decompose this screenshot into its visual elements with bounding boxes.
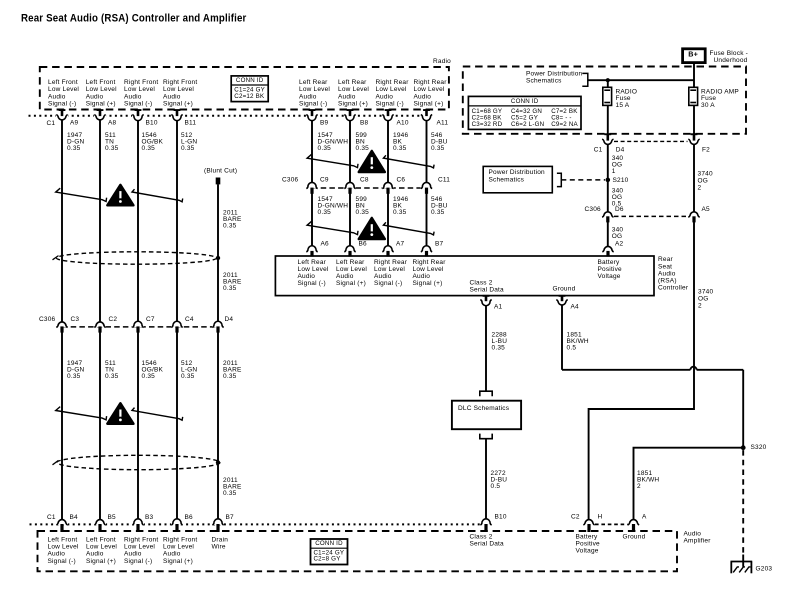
connector bracket (DLC top) bbox=[480, 391, 492, 396]
radio pin B10 bbox=[132, 114, 144, 121]
svg-text:Positive: Positive bbox=[598, 266, 623, 273]
svg-text:B+: B+ bbox=[688, 50, 698, 59]
conn id table (radio C1/C2) bbox=[231, 76, 268, 102]
svg-text:2: 2 bbox=[637, 483, 641, 490]
svg-text:0.35: 0.35 bbox=[223, 373, 237, 380]
box DLC Schematics bbox=[452, 401, 521, 430]
svg-text:0.35: 0.35 bbox=[318, 209, 332, 216]
wire S320 to G203 (dashed) bbox=[742, 450, 744, 556]
svg-text:B5: B5 bbox=[108, 514, 117, 521]
svg-text:Ground: Ground bbox=[553, 286, 576, 293]
svg-text:A4: A4 bbox=[571, 304, 580, 311]
svg-text:(RSA): (RSA) bbox=[658, 278, 677, 285]
svg-text:Wire: Wire bbox=[212, 544, 226, 551]
wire 546 D-BU 0.35 (C306 to RSA B7) bbox=[426, 193, 428, 246]
svg-text:C306: C306 bbox=[39, 316, 56, 323]
svg-text:Low Level: Low Level bbox=[86, 86, 117, 93]
fuse block connector dashed line (C1) bbox=[614, 140, 688, 142]
B+ terminal bbox=[683, 49, 706, 63]
blunt cut terminal bbox=[216, 178, 221, 185]
svg-text:Right Front: Right Front bbox=[163, 536, 197, 543]
svg-text:Left Front: Left Front bbox=[48, 79, 78, 86]
inline connector pin D6 (C306) bbox=[602, 212, 614, 218]
svg-text:Low Level: Low Level bbox=[86, 544, 117, 551]
svg-text:0.35: 0.35 bbox=[356, 209, 370, 216]
svg-text:Low Level: Low Level bbox=[413, 266, 444, 273]
RSA pin B6 bbox=[344, 246, 356, 252]
svg-text:B8: B8 bbox=[360, 120, 369, 127]
svg-text:Schematics: Schematics bbox=[526, 78, 562, 85]
svg-text:A2: A2 bbox=[615, 241, 624, 248]
svg-text:A8: A8 bbox=[108, 120, 117, 127]
radio pin A11 bbox=[421, 114, 433, 121]
inline connector pin C7 (C306 front) bbox=[132, 322, 144, 328]
wire 546 D-BU 0.35 (A11 to C306) bbox=[426, 120, 428, 183]
svg-text:DLC Schematics: DLC Schematics bbox=[458, 405, 510, 412]
svg-text:Battery: Battery bbox=[576, 534, 599, 541]
svg-text:S320: S320 bbox=[751, 444, 767, 451]
svg-text:0.35: 0.35 bbox=[393, 145, 407, 152]
RSA pin A2 bbox=[602, 246, 614, 252]
svg-text:Left Rear: Left Rear bbox=[299, 79, 328, 86]
svg-text:C2: C2 bbox=[571, 514, 580, 521]
svg-text:OG: OG bbox=[698, 178, 709, 185]
svg-text:0.35: 0.35 bbox=[356, 145, 370, 152]
svg-text:0.5: 0.5 bbox=[567, 345, 577, 352]
svg-text:CONN ID: CONN ID bbox=[236, 77, 264, 84]
inline connector pin C11 (C306 rear) bbox=[421, 183, 433, 189]
svg-text:Right Rear: Right Rear bbox=[376, 79, 410, 86]
svg-text:0.35: 0.35 bbox=[223, 285, 237, 292]
svg-text:Low Level: Low Level bbox=[124, 544, 155, 551]
svg-text:C3: C3 bbox=[71, 316, 80, 323]
svg-text:Audio: Audio bbox=[338, 93, 356, 100]
svg-text:Audio: Audio bbox=[298, 273, 316, 280]
RSA pin B7 bbox=[421, 246, 433, 252]
wire 2011 BARE 0.35 (blunt cut to C306) bbox=[217, 184, 219, 322]
svg-text:Audio: Audio bbox=[124, 93, 142, 100]
svg-text:0.35: 0.35 bbox=[318, 145, 332, 152]
amplifier pin B5 bbox=[94, 519, 106, 525]
conn id table (amplifier C1/C2) bbox=[311, 539, 348, 565]
shield ellipse (front, upper) bbox=[57, 252, 217, 264]
svg-text:2: 2 bbox=[698, 302, 702, 309]
svg-text:OG: OG bbox=[698, 295, 709, 302]
connector bracket (DLC bottom) bbox=[480, 434, 492, 439]
svg-text:Right Rear: Right Rear bbox=[413, 259, 447, 266]
box Rear Seat Audio (RSA) Controller bbox=[275, 256, 654, 296]
svg-text:Left Rear: Left Rear bbox=[298, 259, 327, 266]
svg-text:Audio: Audio bbox=[48, 93, 66, 100]
wire 511 TN 0.35 (C306 to amplifier) bbox=[99, 332, 101, 520]
bracket (power distribution, fuse block) bbox=[582, 73, 588, 86]
wire 3740 OG 2 (F2 to A5) bbox=[693, 145, 695, 212]
wire 1946 BK 0.35 (C306 to RSA A7) bbox=[387, 193, 389, 246]
svg-text:(Blunt Cut): (Blunt Cut) bbox=[204, 167, 237, 174]
inline connector pin C8 (C306 rear) bbox=[344, 183, 356, 189]
RSA pin A6 bbox=[306, 246, 318, 252]
svg-text:Audio: Audio bbox=[658, 270, 676, 277]
svg-text:Audio: Audio bbox=[413, 273, 431, 280]
wire 511 TN 0.35 (A8 to C306) bbox=[99, 120, 101, 322]
svg-text:B11: B11 bbox=[185, 120, 197, 127]
inline connector pin D4 (C306 front) bbox=[212, 322, 224, 328]
amplifier pin B7 bbox=[212, 519, 224, 525]
svg-text:Power Distribution: Power Distribution bbox=[489, 169, 546, 176]
svg-text:0.35: 0.35 bbox=[142, 373, 156, 380]
svg-text:Signal (-): Signal (-) bbox=[376, 101, 404, 108]
svg-text:A: A bbox=[642, 514, 647, 521]
svg-text:Underhood: Underhood bbox=[714, 57, 748, 64]
svg-text:B3: B3 bbox=[145, 514, 154, 521]
svg-text:Schematics: Schematics bbox=[489, 176, 525, 183]
svg-text:Serial Data: Serial Data bbox=[470, 541, 505, 548]
svg-text:D4: D4 bbox=[225, 316, 234, 323]
wire 3740 OG 2 (A5 to amplifier C2) bbox=[589, 222, 694, 520]
svg-text:C3=32 RD: C3=32 RD bbox=[472, 121, 503, 128]
inline connector dashed line (D6 to A5) bbox=[614, 215, 688, 217]
svg-text:Radio: Radio bbox=[433, 58, 451, 65]
svg-text:0.35: 0.35 bbox=[431, 209, 445, 216]
svg-text:C9=2 NA: C9=2 NA bbox=[551, 121, 578, 128]
svg-text:A10: A10 bbox=[397, 120, 409, 127]
radio pin B11 bbox=[171, 114, 183, 121]
svg-text:B10: B10 bbox=[146, 120, 158, 127]
shield drain junction dot (upper) bbox=[216, 256, 220, 260]
dashed link (PDS box to S210) bbox=[561, 179, 605, 181]
svg-text:C2: C2 bbox=[109, 316, 118, 323]
svg-text:Low Level: Low Level bbox=[414, 86, 445, 93]
svg-text:Audio: Audio bbox=[376, 93, 394, 100]
svg-text:0.35: 0.35 bbox=[223, 490, 237, 497]
shield ellipse (front, lower) bbox=[57, 455, 220, 469]
junction dot (B+ bus / RADIO fuse) bbox=[606, 78, 610, 82]
svg-text:Audio: Audio bbox=[163, 93, 181, 100]
svg-text:Low Level: Low Level bbox=[48, 86, 79, 93]
svg-text:0.35: 0.35 bbox=[67, 145, 81, 152]
wire 2011 BARE 0.35 (C306 to amplifier drain) bbox=[217, 332, 219, 520]
svg-text:A9: A9 bbox=[70, 120, 79, 127]
svg-text:Audio: Audio bbox=[163, 551, 181, 558]
svg-text:0.35: 0.35 bbox=[393, 209, 407, 216]
svg-text:D4: D4 bbox=[616, 147, 625, 154]
RSA pin A7 bbox=[382, 246, 394, 252]
svg-text:Seat: Seat bbox=[658, 263, 672, 270]
svg-text:A7: A7 bbox=[396, 241, 405, 248]
svg-text:1: 1 bbox=[612, 168, 616, 175]
wire 512 L-GN 0.35 (B11 to C306) bbox=[176, 120, 178, 322]
svg-text:A5: A5 bbox=[702, 206, 711, 213]
svg-text:Controller: Controller bbox=[658, 285, 689, 292]
ground G203 bbox=[742, 555, 744, 567]
svg-text:Voltage: Voltage bbox=[598, 273, 621, 280]
svg-text:0.35: 0.35 bbox=[142, 145, 156, 152]
svg-text:Left Front: Left Front bbox=[86, 79, 116, 86]
svg-text:0.35: 0.35 bbox=[223, 223, 237, 230]
svg-text:Left Rear: Left Rear bbox=[336, 259, 365, 266]
svg-text:B6: B6 bbox=[185, 514, 194, 521]
wire 1851 BK/WH 0.5 (A4 to S320) with hop over 3740 bbox=[561, 305, 563, 370]
svg-text:0.35: 0.35 bbox=[105, 145, 119, 152]
svg-text:B10: B10 bbox=[495, 514, 507, 521]
svg-text:C2=12 BK: C2=12 BK bbox=[234, 93, 265, 100]
inline connector pin C2 (C306 front) bbox=[94, 322, 106, 328]
twisted pair symbol / warning triangle (rear, lower) bbox=[307, 221, 358, 234]
svg-text:3740: 3740 bbox=[698, 171, 713, 178]
wire 2272 D-BU 0.5 (DLC to B10) bbox=[485, 439, 487, 520]
radio pin A9 bbox=[56, 114, 68, 121]
RSA pin A1 bbox=[480, 299, 492, 306]
svg-text:Signal (+): Signal (+) bbox=[413, 280, 443, 287]
wire 599 BN 0.35 (B8 to C306) bbox=[349, 120, 351, 183]
svg-text:Serial Data: Serial Data bbox=[470, 287, 505, 294]
amplifier pin B6 bbox=[171, 519, 183, 525]
svg-text:C6=2 L-GN: C6=2 L-GN bbox=[511, 121, 544, 128]
svg-text:Left Rear: Left Rear bbox=[338, 79, 367, 86]
svg-text:Low Level: Low Level bbox=[163, 544, 194, 551]
svg-text:Audio: Audio bbox=[299, 93, 317, 100]
radio connector C1 dotted line bbox=[29, 115, 427, 117]
box Radio (dashed) bbox=[40, 67, 449, 110]
svg-text:Audio: Audio bbox=[374, 273, 392, 280]
svg-text:Rear: Rear bbox=[658, 256, 674, 263]
svg-text:Low Level: Low Level bbox=[124, 86, 155, 93]
wire 1947 D-GN 0.35 (C306 to amplifier) bbox=[61, 332, 63, 520]
svg-text:Left Front: Left Front bbox=[48, 536, 78, 543]
amplifier pin B4 bbox=[56, 519, 68, 525]
wire 340 OG 1 (D4 to S210) and 340 OG 0.5 (S210 to D6) bbox=[607, 145, 609, 212]
inline connector pin C4 (C306 front) bbox=[171, 322, 183, 328]
svg-text:C1: C1 bbox=[47, 514, 56, 521]
svg-text:Signal (+): Signal (+) bbox=[338, 101, 368, 108]
amplifier pin B3 bbox=[132, 519, 144, 525]
svg-text:Right Front: Right Front bbox=[163, 79, 197, 86]
svg-text:Signal (-): Signal (-) bbox=[48, 101, 76, 108]
wire 340 OG (D6 to A2) bbox=[607, 222, 609, 247]
svg-text:Rear Seat Audio (RSA) Controll: Rear Seat Audio (RSA) Controller and Amp… bbox=[21, 13, 247, 25]
svg-text:Signal (+): Signal (+) bbox=[414, 101, 444, 108]
RSA pin A4 bbox=[556, 299, 568, 306]
svg-text:Signal (-): Signal (-) bbox=[124, 101, 152, 108]
svg-text:CONN ID: CONN ID bbox=[315, 540, 343, 547]
svg-text:Low Level: Low Level bbox=[163, 86, 194, 93]
svg-text:Low Level: Low Level bbox=[374, 266, 405, 273]
svg-text:F2: F2 bbox=[702, 147, 710, 154]
svg-text:C8: C8 bbox=[360, 177, 369, 184]
svg-text:Signal (+): Signal (+) bbox=[163, 558, 193, 565]
svg-text:Signal (+): Signal (+) bbox=[336, 280, 366, 287]
svg-text:Signal (+): Signal (+) bbox=[86, 101, 116, 108]
conn id table (fuse block) bbox=[468, 96, 581, 129]
svg-text:Right Front: Right Front bbox=[124, 536, 158, 543]
svg-text:A11: A11 bbox=[437, 120, 449, 127]
wire 1946 BK 0.35 (A10 to C306) bbox=[387, 120, 389, 183]
svg-text:Signal (-): Signal (-) bbox=[48, 558, 76, 565]
svg-text:Audio: Audio bbox=[414, 93, 432, 100]
svg-text:Signal (-): Signal (-) bbox=[374, 280, 402, 287]
svg-text:Class 2: Class 2 bbox=[470, 534, 493, 541]
svg-text:2: 2 bbox=[698, 185, 702, 192]
svg-text:Low Level: Low Level bbox=[299, 86, 330, 93]
inline connector C306 dashed line (front) bbox=[62, 326, 218, 328]
svg-text:B7: B7 bbox=[435, 241, 444, 248]
svg-text:Signal (-): Signal (-) bbox=[298, 280, 326, 287]
svg-text:30 A: 30 A bbox=[701, 102, 715, 109]
inline connector pin C6 (C306 rear) bbox=[382, 183, 394, 189]
wire 2288 L-BU 0.35 (A1 to DLC) bbox=[485, 305, 487, 391]
svg-text:B4: B4 bbox=[70, 514, 79, 521]
svg-text:Positive: Positive bbox=[576, 541, 601, 548]
svg-text:Low Level: Low Level bbox=[298, 266, 329, 273]
svg-text:C1: C1 bbox=[594, 147, 603, 154]
svg-text:3740: 3740 bbox=[698, 288, 713, 295]
svg-text:D6: D6 bbox=[615, 206, 624, 213]
svg-text:0.35: 0.35 bbox=[67, 373, 81, 380]
svg-text:Audio: Audio bbox=[86, 93, 104, 100]
radio pin A10 bbox=[382, 114, 394, 121]
svg-text:C9: C9 bbox=[320, 177, 329, 184]
svg-text:Voltage: Voltage bbox=[576, 548, 599, 555]
svg-text:Signal (-): Signal (-) bbox=[124, 558, 152, 565]
svg-text:Low Level: Low Level bbox=[48, 544, 79, 551]
svg-text:CONN ID: CONN ID bbox=[511, 98, 539, 105]
inline connector pin C3 (C306 front) bbox=[56, 322, 68, 328]
svg-text:Right Rear: Right Rear bbox=[414, 79, 448, 86]
svg-text:Right Rear: Right Rear bbox=[374, 259, 408, 266]
svg-text:Audio: Audio bbox=[684, 530, 702, 537]
svg-text:Battery: Battery bbox=[598, 259, 621, 266]
wire 1947 D-GN 0.35 (A9 to C306) bbox=[61, 120, 63, 322]
wire 599 BN 0.35 (C306 to RSA B6) bbox=[349, 193, 351, 246]
shield drain junction dot (lower) bbox=[216, 460, 220, 464]
svg-text:B7: B7 bbox=[226, 514, 235, 521]
twisted pair symbol / warning triangle (front, upper) bbox=[56, 188, 107, 201]
svg-text:Low Level: Low Level bbox=[336, 266, 367, 273]
svg-text:Right Front: Right Front bbox=[124, 79, 158, 86]
svg-text:C2=8 GY: C2=8 GY bbox=[314, 556, 341, 563]
svg-text:C306: C306 bbox=[585, 206, 602, 213]
radio pin A8 bbox=[94, 114, 106, 121]
wire 1547 D-GN/WH 0.35 (C306 to RSA A6) bbox=[311, 193, 313, 246]
amplifier connector C1 dotted line bbox=[30, 523, 482, 525]
twisted pair symbol / warning triangle (rear, upper) bbox=[307, 154, 358, 167]
svg-text:Ground: Ground bbox=[623, 534, 646, 541]
twisted pair symbol / warning triangle (front, lower) bbox=[56, 407, 107, 420]
svg-text:Signal (-): Signal (-) bbox=[299, 101, 327, 108]
svg-text:C306: C306 bbox=[282, 177, 299, 184]
amplifier pin B10 bbox=[480, 519, 492, 525]
svg-text:Left Front: Left Front bbox=[86, 536, 116, 543]
svg-text:Audio: Audio bbox=[124, 551, 142, 558]
svg-text:A1: A1 bbox=[494, 304, 503, 311]
svg-text:G203: G203 bbox=[756, 565, 773, 572]
svg-text:A6: A6 bbox=[321, 241, 330, 248]
svg-text:Drain: Drain bbox=[212, 536, 229, 543]
bracket (power distribution schematics box) bbox=[557, 173, 561, 186]
svg-text:B6: B6 bbox=[359, 241, 368, 248]
svg-text:Low Level: Low Level bbox=[338, 86, 369, 93]
svg-text:Class 2: Class 2 bbox=[470, 280, 493, 287]
svg-text:Fuse Block -: Fuse Block - bbox=[710, 50, 749, 57]
svg-text:0.35: 0.35 bbox=[431, 145, 445, 152]
svg-text:S210: S210 bbox=[613, 177, 629, 184]
wire RADIO AMP fuse to pin F2 bbox=[693, 105, 695, 134]
svg-text:C4: C4 bbox=[185, 316, 194, 323]
svg-text:C7: C7 bbox=[146, 316, 155, 323]
wire B+ bus bbox=[693, 63, 695, 88]
wire 1851 BK/WH 2 (S320 to amplifier A) bbox=[634, 448, 744, 520]
fuse block pin D4 bbox=[602, 139, 614, 146]
amplifier pin A bbox=[628, 519, 640, 525]
wire 512 L-GN 0.35 (C306 to amplifier) bbox=[176, 332, 178, 520]
inline connector pin A5 (C306) bbox=[688, 212, 700, 218]
svg-text:0.35: 0.35 bbox=[181, 145, 195, 152]
svg-text:0.35: 0.35 bbox=[105, 373, 119, 380]
svg-text:Power Distribution: Power Distribution bbox=[526, 70, 583, 77]
radio pin B8 bbox=[344, 114, 356, 121]
radio pin B9 bbox=[306, 114, 318, 121]
svg-text:C6: C6 bbox=[397, 177, 406, 184]
splice S210 bbox=[606, 178, 611, 183]
wire RADIO fuse to pin C1/D4 bbox=[607, 105, 609, 134]
svg-text:C11: C11 bbox=[438, 177, 450, 184]
box Power Distribution Schematics bbox=[483, 166, 552, 192]
svg-text:B9: B9 bbox=[320, 120, 329, 127]
fuse block pin F2 bbox=[688, 139, 700, 146]
fuse RADIO 15 A bbox=[603, 87, 612, 105]
splice S320 bbox=[741, 445, 746, 450]
box Fuse Block - Underhood (dashed) bbox=[463, 67, 746, 134]
svg-text:Audio: Audio bbox=[86, 551, 104, 558]
inline connector pin C9 (C306 rear) bbox=[306, 183, 318, 189]
svg-text:Signal (+): Signal (+) bbox=[163, 101, 193, 108]
svg-text:C1: C1 bbox=[47, 120, 56, 127]
svg-text:15 A: 15 A bbox=[616, 102, 630, 109]
wire 1546 OG/BK 0.35 (B10 to C306) bbox=[137, 120, 139, 322]
svg-text:Audio: Audio bbox=[336, 273, 354, 280]
inline connector C306 dashed line (rear) bbox=[312, 187, 427, 189]
svg-text:OG: OG bbox=[612, 233, 623, 240]
svg-text:Signal (+): Signal (+) bbox=[86, 558, 116, 565]
svg-text:Audio: Audio bbox=[48, 551, 66, 558]
svg-text:Low Level: Low Level bbox=[376, 86, 407, 93]
amplifier pin C2/H bbox=[583, 519, 595, 525]
svg-text:H: H bbox=[598, 514, 603, 521]
fuse RADIO AMP 30 A bbox=[689, 87, 698, 105]
box Audio Amplifier (dashed) bbox=[38, 531, 678, 571]
svg-text:0.5: 0.5 bbox=[491, 483, 501, 490]
svg-text:0.35: 0.35 bbox=[492, 345, 506, 352]
svg-text:Amplifier: Amplifier bbox=[684, 538, 712, 545]
svg-text:0.35: 0.35 bbox=[181, 373, 195, 380]
wire 1546 OG/BK 0.35 (C306 to amplifier) bbox=[137, 332, 139, 520]
wire 1547 D-GN/WH 0.35 (B9 to C306) bbox=[311, 120, 313, 183]
